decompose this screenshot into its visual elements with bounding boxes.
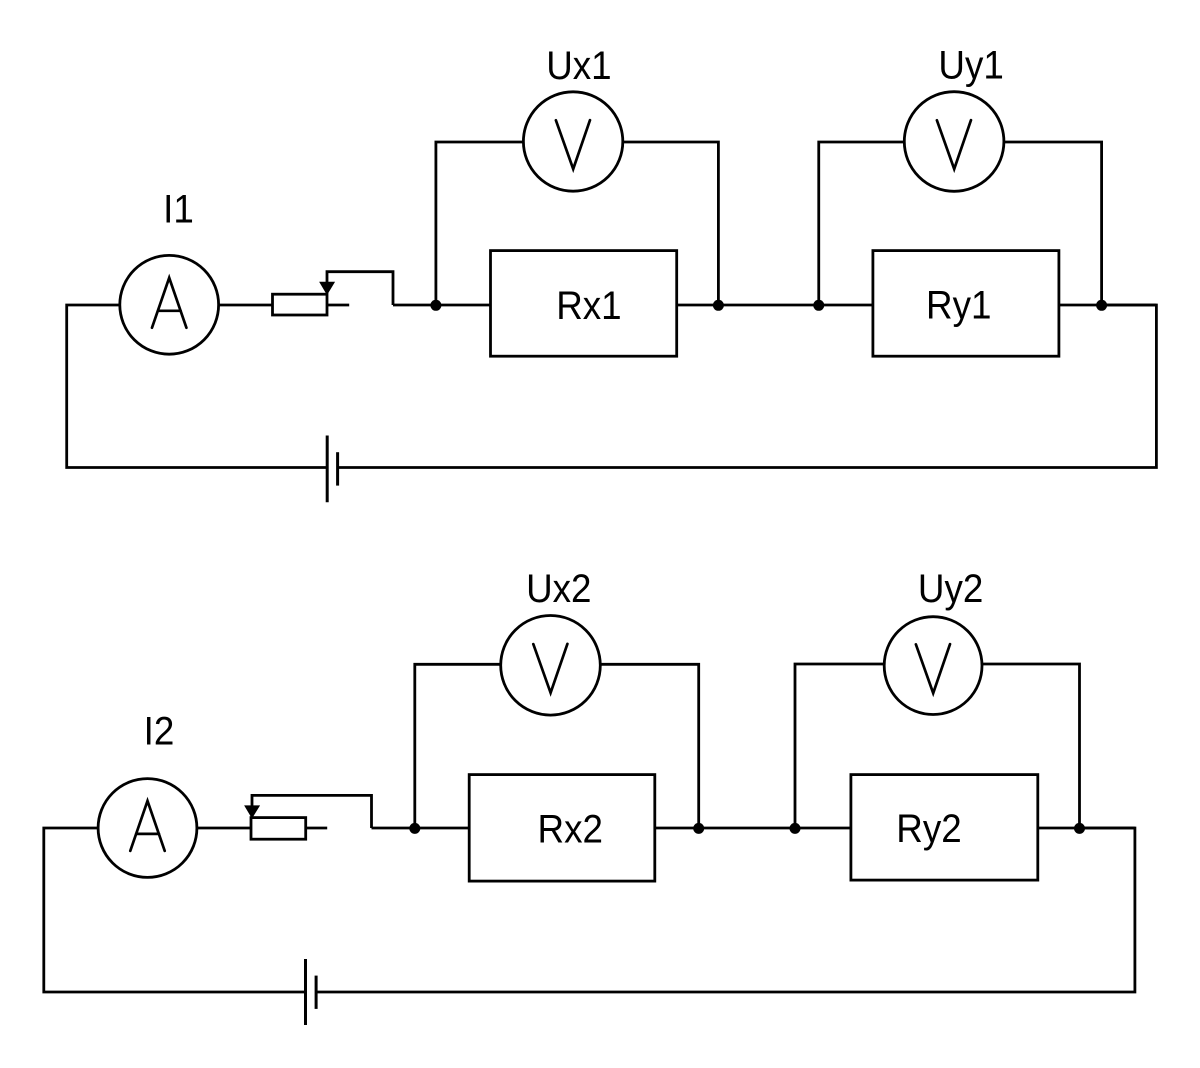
wire: left loop (ammeter to battery minus): [44, 828, 306, 992]
ammeter A (I2): [98, 779, 197, 878]
node B (right of Rx1): [713, 300, 724, 311]
wire: node E riser to voltmeter Ux2: [415, 664, 501, 828]
wire: voltmeter Uy1 right drop to node D: [1004, 142, 1102, 305]
resistor Ry2: [851, 775, 1038, 881]
rheostat wiper arrow: [320, 282, 334, 294]
battery E1 short plate: [336, 452, 339, 485]
voltmeter V (Uy2): [884, 617, 982, 715]
rheostat R (circuit 2): [251, 818, 306, 840]
wire: wiper to Rx2: [372, 827, 470, 830]
node D (right of Ry1): [1096, 300, 1107, 311]
wire: wiper to Rx1: [393, 304, 491, 307]
rheostat R (circuit 1): [273, 294, 328, 315]
voltmeter V (Uy1): [904, 92, 1004, 192]
resistor Rx2: [469, 775, 655, 882]
svg-text:Ux1: Ux1: [546, 44, 611, 89]
wire: right loop (battery plus to Ry2 node): [316, 828, 1135, 992]
node F (right of Rx2): [693, 823, 704, 834]
wire: voltmeter Ux1 right drop to node B: [623, 142, 719, 305]
svg-text:I2: I2: [144, 709, 175, 754]
rheostat stub wire: [306, 827, 328, 830]
node E (left of Rx2): [409, 823, 420, 834]
rheostat stub wire: [327, 304, 349, 307]
battery E1 long plate: [326, 436, 329, 503]
wire: node G riser to voltmeter Uy2: [795, 664, 883, 828]
wire: ammeter to rheostat: [219, 304, 273, 307]
wire: wiper jumper: [252, 795, 372, 828]
svg-text:Ry2: Ry2: [896, 807, 961, 852]
wire: Rx1 to Ry1: [677, 304, 873, 307]
wire: Ry2 to right corner: [1038, 827, 1135, 830]
wire: voltmeter Uy2 right drop to node H: [982, 664, 1080, 828]
wire: voltmeter Ux2 right drop to node F: [600, 664, 698, 828]
voltmeter V (Ux2): [501, 616, 601, 716]
wire: node A riser to voltmeter Ux1: [436, 142, 524, 305]
svg-text:Uy2: Uy2: [918, 567, 983, 612]
wire: wiper jumper: [327, 272, 393, 305]
svg-text:Ux2: Ux2: [526, 567, 591, 612]
svg-text:Ry1: Ry1: [926, 283, 991, 328]
svg-text:I1: I1: [163, 187, 194, 232]
svg-text:Rx2: Rx2: [537, 807, 602, 852]
node G (left of Ry2 loop): [790, 823, 801, 834]
rheostat wiper arrow: [245, 806, 259, 818]
resistor Rx1: [491, 251, 677, 357]
resistor Ry1: [873, 251, 1059, 357]
wire: Rx2 to Ry2: [655, 827, 851, 830]
ammeter A (I1): [120, 255, 219, 354]
wire: right loop (battery plus to Ry1 node): [338, 305, 1157, 468]
wire: Ry1 to right corner: [1059, 304, 1157, 307]
battery E2 long plate: [304, 959, 307, 1025]
node A (left of Rx1): [430, 300, 441, 311]
wire: ammeter to rheostat: [197, 827, 251, 830]
voltmeter V (Ux1): [523, 92, 622, 191]
battery E2 short plate: [315, 976, 318, 1009]
svg-text:Uy1: Uy1: [938, 43, 1003, 88]
wire: node C riser to voltmeter Uy1: [819, 142, 905, 305]
node C (left of Ry1 loop): [813, 300, 824, 311]
wire: left loop (ammeter to battery minus): [67, 305, 328, 468]
node H (right of Ry2): [1074, 823, 1085, 834]
svg-text:Rx1: Rx1: [556, 284, 621, 329]
